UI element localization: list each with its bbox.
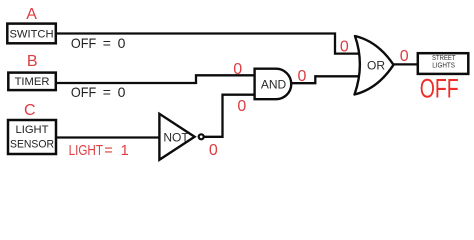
svg-text:AND: AND xyxy=(261,78,287,92)
svg-text:0: 0 xyxy=(209,142,218,159)
svg-text:SENSOR: SENSOR xyxy=(10,139,54,151)
svg-text:0: 0 xyxy=(233,61,242,78)
svg-text:OR: OR xyxy=(367,58,385,72)
svg-text:0: 0 xyxy=(237,98,246,115)
svg-text:B: B xyxy=(27,53,38,70)
svg-text:LIGHTS: LIGHTS xyxy=(432,61,455,70)
svg-text:SWITCH: SWITCH xyxy=(9,28,53,40)
svg-text:LIGHT: LIGHT xyxy=(16,124,49,136)
svg-text:0: 0 xyxy=(340,39,349,56)
svg-text:LIGHT=1: LIGHT=1 xyxy=(69,143,129,159)
svg-text:0: 0 xyxy=(297,68,306,85)
svg-text:C: C xyxy=(24,102,36,119)
svg-text:OFF: OFF xyxy=(420,74,459,104)
svg-text:A: A xyxy=(26,6,37,23)
svg-text:TIMER: TIMER xyxy=(15,76,50,88)
svg-text:NOT: NOT xyxy=(163,130,189,144)
svg-text:0: 0 xyxy=(400,48,409,65)
